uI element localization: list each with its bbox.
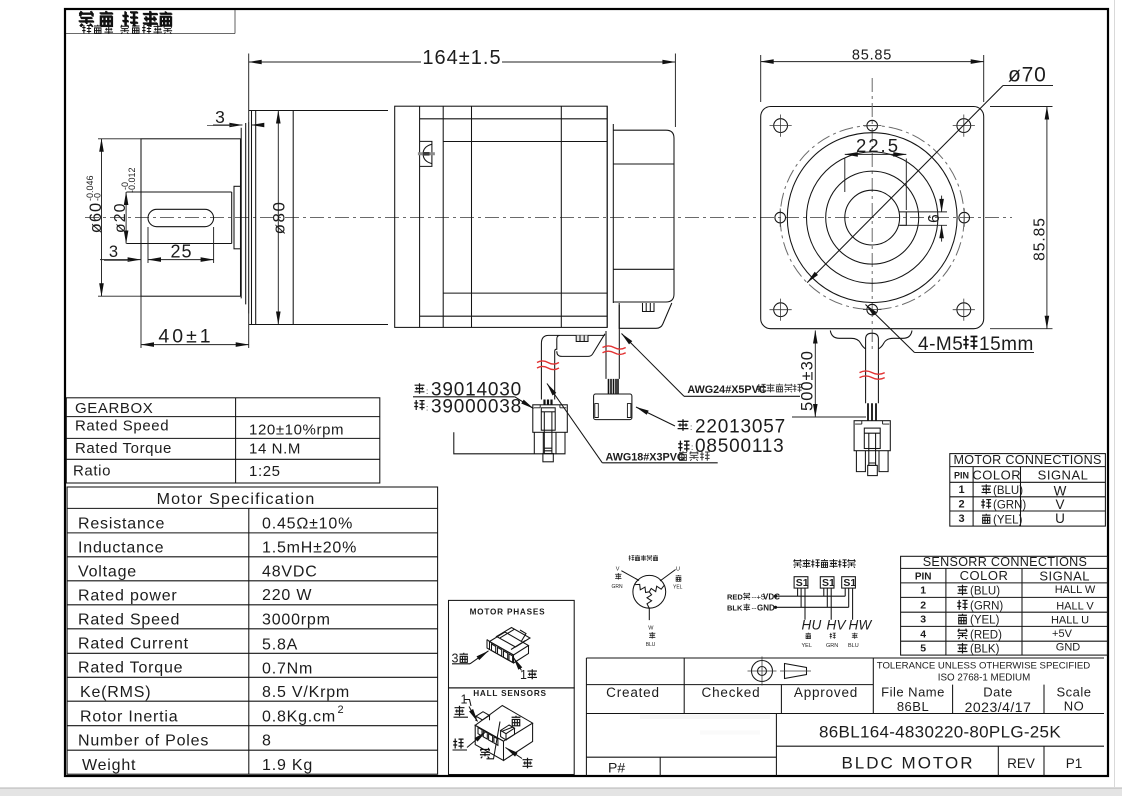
bore keyway (899, 212, 906, 225)
svg-text:(RED): (RED) (970, 629, 1002, 641)
front cable (866, 333, 879, 403)
wye labels U yellow (673, 567, 683, 591)
svg-text:HALL W: HALL W (1055, 584, 1096, 596)
motor body section seams (420, 106, 562, 327)
svg-text::: : (426, 387, 428, 396)
svg-text:BLK: BLK (727, 604, 743, 613)
stamp box (66, 10, 235, 34)
svg-text:ø80: ø80 (270, 201, 289, 235)
motor rear endbell cap (613, 124, 674, 303)
hall left labels (727, 593, 780, 602)
svg-text:120±10%rpm: 120±10%rpm (249, 422, 344, 439)
left cable sheath end / wires (545, 400, 552, 406)
svg-text:Rated power: Rated power (78, 588, 178, 605)
stamp chinese seal text row2 (82, 25, 172, 34)
svg-text:BLU: BLU (848, 643, 859, 649)
wye coils (635, 584, 664, 608)
label 39014030 / 39000038 (415, 380, 522, 401)
svg-text:(BLK): (BLK) (970, 644, 1000, 656)
svg-text:V: V (616, 567, 620, 573)
4-M5深15mm label (918, 334, 1034, 355)
svg-text:0.45Ω±10%: 0.45Ω±10% (262, 516, 353, 533)
svg-text:ø70: ø70 (1008, 64, 1047, 87)
gearbox round body ø80 (249, 111, 388, 325)
svg-text:3: 3 (958, 513, 964, 525)
svg-text::: : (426, 404, 428, 413)
vertical centerline (871, 78, 873, 353)
svg-text:Inductance: Inductance (78, 540, 164, 557)
svg-text:ø20: ø20 (112, 203, 129, 234)
svg-text:500±30: 500±30 (799, 350, 817, 411)
svg-text:86BL: 86BL (897, 699, 929, 714)
hall wiring (776, 588, 853, 620)
svg-text:HV: HV (827, 618, 848, 633)
svg-text:15mm: 15mm (979, 334, 1034, 355)
svg-text:0.8Kg.cm: 0.8Kg.cm (262, 709, 336, 726)
title block text (606, 685, 858, 700)
label AWG24#X5PVC (687, 384, 801, 396)
svg-text:(YEL): (YEL) (993, 515, 1023, 527)
svg-text:GND: GND (1056, 642, 1081, 654)
phases labels (452, 652, 468, 666)
svg-text:(YEL): (YEL) (970, 615, 1000, 627)
front cable break mark (860, 371, 885, 379)
svg-text:220 W: 220 W (262, 587, 312, 604)
window chrome: bottom grey strip (0, 788, 1122, 796)
svg-text:Rated Torque: Rated Torque (75, 440, 172, 457)
bolt circle (780, 126, 964, 310)
svg-text:8.5 V/Krpm: 8.5 V/Krpm (262, 684, 350, 701)
gearbox body seam (292, 111, 294, 325)
svg-text:P#: P# (608, 760, 625, 776)
stamp chinese seal text row1 (79, 11, 173, 27)
svg-text:Number of Poles: Number of Poles (78, 733, 209, 750)
dim 85.85 right (990, 107, 1053, 329)
svg-text:Ratio: Ratio (73, 463, 111, 480)
svg-text:ø60: ø60 (87, 202, 105, 233)
svg-text:-0.012: -0.012 (127, 167, 137, 193)
svg-text:AWG24#X5PVC: AWG24#X5PVC (687, 384, 766, 396)
phases connector isometric (487, 628, 530, 664)
main horizontal centerline (85, 217, 1012, 219)
svg-text:25: 25 (170, 242, 192, 262)
svg-text:-0.046: -0.046 (85, 175, 95, 201)
wye labels V green (612, 567, 624, 591)
left clamp screw (576, 335, 588, 341)
svg-text:Approved: Approved (794, 685, 858, 700)
svg-text:YEL: YEL (802, 643, 812, 649)
dim 3 (keyway offset) (100, 227, 214, 263)
projection symbol: cone (785, 664, 807, 679)
dim 25 keyway (148, 259, 214, 261)
label AWG18#X3PVC (606, 451, 710, 463)
earth terminal (418, 141, 435, 166)
svg-text:Checked: Checked (702, 685, 761, 700)
power connector (side view) (454, 405, 568, 462)
svg-text:Date: Date (983, 685, 1012, 700)
dim ø20 with tolerance (125, 192, 127, 244)
front strain relief (830, 331, 912, 349)
svg-text:SIGNAL: SIGNAL (1038, 468, 1089, 483)
svg-text:Rated Speed: Rated Speed (75, 418, 169, 435)
motor body square (395, 106, 608, 327)
svg-text:1.5mH±20%: 1.5mH±20% (262, 540, 357, 557)
svg-text:164±1.5: 164±1.5 (422, 47, 501, 69)
svg-text:U: U (1055, 511, 1065, 526)
output bore lines (127, 192, 232, 244)
window chrome: right faint line (1114, 0, 1116, 788)
svg-text:22.5: 22.5 (856, 135, 900, 156)
svg-text:HU: HU (802, 618, 822, 633)
gearbox flange lines (241, 122, 249, 314)
right cable break mark (603, 346, 626, 355)
projection symbol: target (752, 661, 773, 682)
front cable wires (868, 403, 876, 421)
svg-text:14 N.M: 14 N.M (249, 441, 301, 458)
svg-text:4: 4 (920, 628, 926, 640)
svg-text:VDC: VDC (763, 593, 780, 602)
svg-text:MOTOR CONNECTIONS: MOTOR CONNECTIONS (953, 453, 1101, 467)
svg-text:NO: NO (1064, 699, 1085, 714)
svg-text:SIGNAL: SIGNAL (1039, 569, 1090, 584)
svg-text:MOTOR PHASES: MOTOR PHASES (470, 608, 546, 617)
M5 holes on bolt circle (775, 120, 970, 315)
svg-text:HALL SENSORS: HALL SENSORS (473, 689, 547, 698)
svg-text:BLDC MOTOR: BLDC MOTOR (841, 754, 974, 773)
svg-text:U: U (676, 567, 680, 573)
hall connector isometric (475, 706, 532, 761)
svg-text:W: W (648, 625, 654, 631)
svg-text:1:25: 1:25 (249, 463, 281, 480)
svg-text:S1: S1 (796, 577, 809, 589)
svg-text:1.9 Kg: 1.9 Kg (262, 757, 313, 774)
motor body stator band lines (443, 142, 607, 294)
dim 164±1.5 (249, 54, 676, 128)
dim 500±30 (792, 331, 866, 418)
svg-text:SENSORR CONNECTIONS: SENSORR CONNECTIONS (923, 555, 1088, 569)
svg-text:BLU: BLU (646, 642, 656, 648)
motor body chamfer lines (420, 119, 608, 316)
wye leads (621, 570, 675, 621)
dim 6 keyway (906, 196, 947, 242)
svg-text:AWG18#X3PVC: AWG18#X3PVC (606, 452, 685, 464)
svg-text::: : (691, 443, 693, 452)
svg-text:COLOR: COLOR (960, 568, 1009, 583)
faint erased marks (640, 715, 770, 720)
svg-text:File Name: File Name (881, 685, 945, 700)
svg-text:GEARBOX: GEARBOX (75, 400, 153, 417)
svg-text:S1: S1 (843, 577, 856, 589)
svg-text:3: 3 (920, 614, 926, 626)
hall sensor boxes S1 S1 S1 (794, 577, 855, 588)
svg-text:2: 2 (338, 704, 345, 716)
svg-text:HW: HW (849, 618, 873, 633)
svg-text:(BLU): (BLU) (993, 485, 1023, 497)
svg-text:+5V: +5V (1052, 628, 1073, 640)
svg-text:3000rpm: 3000rpm (262, 612, 331, 629)
svg-text:PIN: PIN (915, 572, 932, 583)
svg-text:Rated Torque: Rated Torque (78, 660, 183, 677)
svg-text:Rated Speed: Rated Speed (78, 612, 180, 629)
svg-text:85.85: 85.85 (1032, 217, 1049, 261)
dim ø60 with tolerance (98, 139, 141, 296)
right cable wire bundle (609, 379, 619, 394)
right clamp screw (643, 303, 655, 312)
svg-text:5: 5 (920, 643, 926, 655)
flange square (761, 107, 984, 329)
svg-text:3: 3 (215, 107, 225, 127)
svg-text:0.7Nm: 0.7Nm (262, 661, 313, 678)
svg-text:Weight: Weight (82, 757, 136, 774)
svg-text:YEL: YEL (673, 584, 683, 590)
wye labels W blue (646, 625, 656, 648)
svg-text:40±1: 40±1 (158, 326, 213, 348)
right cable from rear cap (606, 305, 619, 379)
gearbox output housing cylinder (141, 139, 241, 296)
svg-text:39000038: 39000038 (431, 397, 522, 418)
svg-text:RED: RED (727, 593, 743, 602)
svg-text:GND: GND (757, 604, 775, 613)
svg-text:8: 8 (262, 733, 272, 750)
wye circle (633, 575, 666, 608)
right cable clamp (619, 303, 672, 328)
svg-text:2: 2 (920, 599, 926, 611)
svg-text:48VDC: 48VDC (262, 564, 318, 581)
svg-text:3: 3 (109, 243, 118, 261)
bore inner collar (234, 186, 241, 249)
rear face line (606, 106, 608, 327)
svg-text:V: V (1055, 497, 1064, 512)
svg-text:08500113: 08500113 (695, 436, 785, 457)
front power connector (854, 421, 890, 476)
svg-text:86BL164-4830220-80PLG-25K: 86BL164-4830220-80PLG-25K (819, 723, 1061, 742)
svg-text:Scale: Scale (1056, 685, 1091, 700)
dim 3 (flange) (213, 124, 264, 126)
dim 22.5 (845, 154, 907, 210)
dim 85.85 top (761, 55, 984, 102)
svg-text:1: 1 (920, 585, 926, 597)
keyway slot (148, 209, 214, 226)
svg-text:Voltage: Voltage (78, 564, 137, 581)
svg-text:(BLU): (BLU) (970, 586, 1000, 598)
svg-text:2: 2 (958, 499, 964, 511)
hall labels (455, 693, 468, 717)
svg-text:PIN: PIN (954, 471, 969, 481)
svg-text:Ke(RMS): Ke(RMS) (80, 684, 151, 701)
svg-text:85.85: 85.85 (852, 47, 892, 63)
svg-text:6: 6 (926, 214, 943, 223)
svg-text:Rotor Inertia: Rotor Inertia (80, 709, 178, 726)
svg-text:HALL V: HALL V (1056, 601, 1094, 613)
dim ø80 (277, 111, 279, 325)
HU HV HW labels (802, 618, 873, 633)
svg-text:HALL U: HALL U (1051, 615, 1089, 627)
svg-text:TOLERANCE UNLESS OTHERWISE S: TOLERANCE UNLESS OTHERWISE SPECIFIED (877, 661, 1090, 672)
svg-text:GRN: GRN (826, 643, 838, 649)
svg-text:22013057: 22013057 (695, 417, 786, 438)
svg-text:5.8A: 5.8A (262, 637, 298, 654)
svg-text:1: 1 (958, 484, 964, 496)
svg-text:ISO 2768-1 MEDIUM: ISO 2768-1 MEDIUM (938, 673, 1031, 684)
concentric circles (787, 133, 957, 303)
svg-text:(GRN): (GRN) (970, 600, 1003, 612)
svg-text:Rated Current: Rated Current (78, 636, 189, 653)
svg-text:2023/4/17: 2023/4/17 (965, 699, 1032, 715)
svg-text:Resistance: Resistance (78, 516, 165, 533)
svg-text:GRN: GRN (612, 584, 624, 590)
svg-text:S1: S1 (822, 577, 835, 589)
svg-text:Created: Created (606, 685, 660, 700)
signal connector (side view) (594, 394, 632, 420)
svg-text:REV: REV (1007, 756, 1035, 771)
label 22013057 / 08500113 (678, 417, 786, 438)
4-M5 leader (866, 305, 915, 353)
svg-text:P1: P1 (1066, 756, 1083, 771)
svg-text:4-M5: 4-M5 (918, 334, 963, 355)
corner mounting holes (774, 119, 971, 317)
svg-text:Motor Specification: Motor Specification (157, 491, 316, 508)
diagonal centerline with ø70 leader (807, 86, 1003, 283)
dim 40±1 (141, 296, 249, 348)
svg-text:(GRN): (GRN) (993, 500, 1026, 512)
svg-text:COLOR: COLOR (972, 468, 1021, 483)
left cable break mark (537, 361, 559, 370)
svg-text::: : (690, 423, 692, 432)
left cable clamp under body (541, 334, 605, 400)
